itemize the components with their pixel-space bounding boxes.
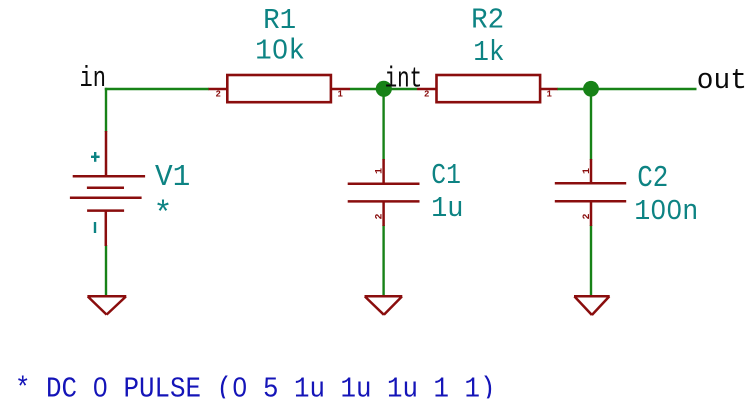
- svg-text:1: 1: [375, 168, 386, 174]
- wire: R1 pin 1 to R2 pin 2 through node int: [350, 88, 417, 90]
- white covers for zero glyph dots: [98, 46, 676, 389]
- battery V1: [70, 131, 145, 246]
- svg-text:1: 1: [582, 168, 593, 174]
- svg-text:1: 1: [338, 90, 344, 100]
- wire: top-left horizontal from V1 corner to R1 pin 2: [105, 88, 209, 90]
- svg-text:in: in: [80, 62, 106, 95]
- svg-text:1k: 1k: [473, 37, 504, 70]
- wire: vertical from node int down to C1: [382, 89, 384, 160]
- svg-text:2: 2: [424, 90, 429, 100]
- resistor R2: [417, 75, 558, 102]
- svg-text:2: 2: [216, 90, 221, 100]
- resistor R1: [209, 75, 351, 102]
- svg-text:R2: R2: [471, 4, 504, 37]
- plus sign of V1: [91, 152, 100, 162]
- ground under V1: [87, 296, 126, 314]
- wire: C1 bottom to ground: [382, 225, 384, 296]
- ground under C1: [365, 296, 403, 315]
- svg-text:out: out: [697, 64, 747, 98]
- junction at node int: [376, 81, 392, 97]
- ground under C2: [574, 296, 610, 315]
- wire: vertical drop from corner into V1 plus lead: [105, 88, 107, 132]
- svg-text:1u: 1u: [431, 193, 463, 225]
- wire: C2 bottom to ground: [590, 225, 592, 296]
- white clip for paren descenders: [0, 398, 751, 407]
- svg-text:*: *: [153, 196, 172, 233]
- wire: vertical from out junction down to C2: [590, 89, 592, 160]
- capacitor C2: [555, 159, 626, 226]
- wire: V1 bottom to ground: [105, 245, 107, 296]
- svg-text:2: 2: [375, 213, 386, 219]
- minus sign of V1 (rotated bar): [94, 222, 96, 233]
- svg-text:V1: V1: [155, 160, 190, 195]
- svg-text:C2: C2: [637, 161, 668, 195]
- svg-text:C1: C1: [431, 160, 461, 192]
- junction at node out: [583, 81, 599, 97]
- svg-text:1: 1: [547, 90, 553, 100]
- svg-text:2: 2: [582, 213, 593, 219]
- svg-text:int: int: [385, 62, 423, 95]
- capacitor C1: [348, 159, 420, 226]
- wire: R2 pin 1 to node out through junction: [557, 88, 697, 90]
- svg-text:100n: 100n: [634, 196, 698, 228]
- svg-text:R1: R1: [263, 4, 296, 37]
